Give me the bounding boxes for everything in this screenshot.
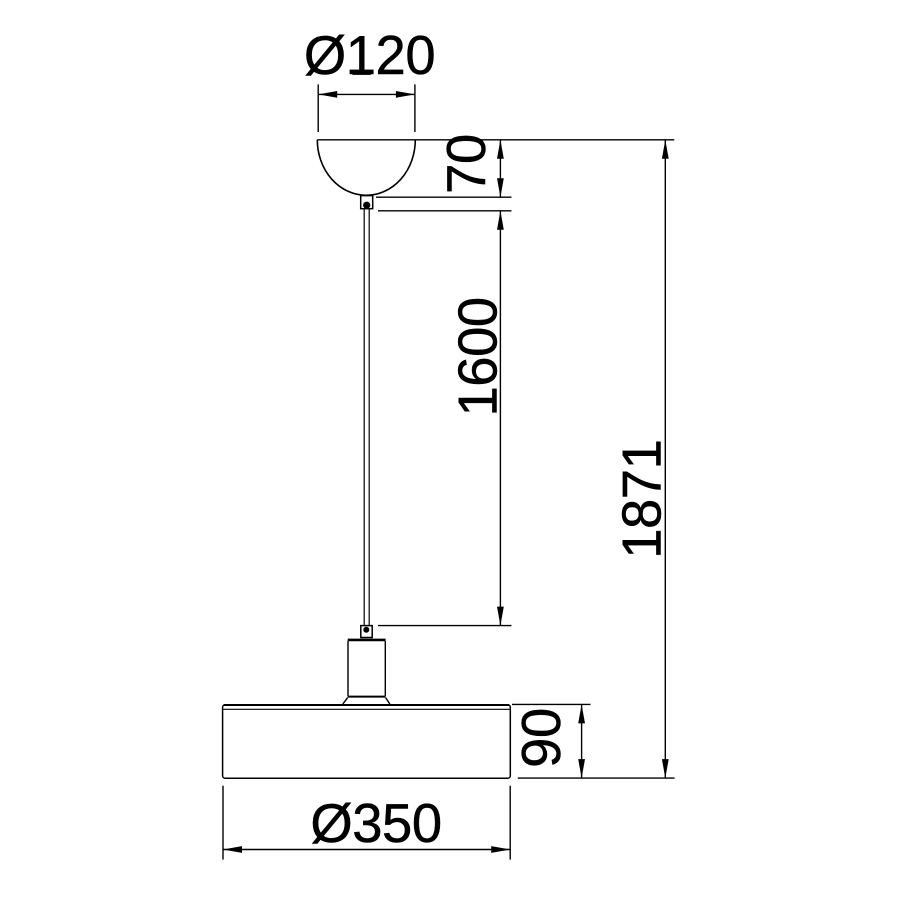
svg-text:Ø350: Ø350 [310,793,441,854]
svg-text:1600: 1600 [448,297,509,416]
svg-text:90: 90 [511,708,572,768]
svg-text:70: 70 [436,134,497,194]
svg-text:Ø120: Ø120 [304,25,435,86]
svg-text:1871: 1871 [612,440,673,559]
